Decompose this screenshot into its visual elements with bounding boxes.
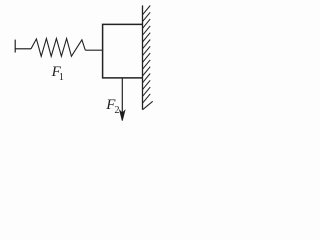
spring (zigzag) — [31, 39, 85, 57]
wire from anchor to spring — [15, 48, 31, 50]
force F2 arrowhead — [120, 111, 125, 121]
wall hatching — [143, 6, 153, 110]
left anchor tick — [14, 40, 16, 53]
block (rectangle against wall) — [103, 24, 143, 78]
force F2 arrow (shaft) — [121, 79, 123, 115]
wire from spring to block — [85, 49, 102, 51]
svg-text:1: 1 — [59, 72, 64, 83]
svg-text:2: 2 — [115, 105, 120, 116]
wall line — [142, 5, 144, 109]
